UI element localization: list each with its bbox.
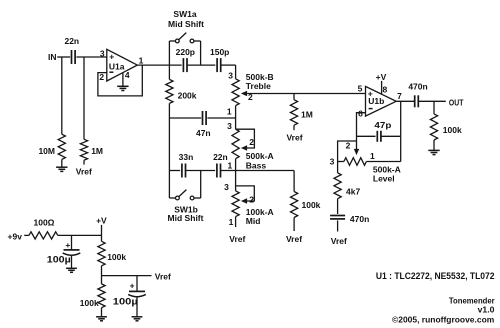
- svg-text:2: 2: [249, 137, 254, 147]
- svg-text:+: +: [368, 88, 373, 98]
- capacitor C2 220p: [182, 58, 184, 72]
- svg-text:2: 2: [346, 141, 351, 151]
- svg-text:Vref: Vref: [76, 166, 92, 176]
- capacitor C4 47n: [202, 111, 204, 125]
- wire divider mid: [101, 266, 103, 276]
- svg-text:Vref: Vref: [286, 133, 302, 143]
- svg-text:200k: 200k: [178, 91, 197, 101]
- svg-text:4k7: 4k7: [346, 186, 360, 196]
- pin 2 mid wiper loop: [236, 186, 255, 201]
- resistor R7 100k output: [430, 114, 437, 140]
- svg-text:1: 1: [227, 107, 232, 117]
- svg-text:v1.0: v1.0: [478, 305, 495, 315]
- wire R4 to Vref: [293, 125, 295, 130]
- svg-text:1: 1: [139, 56, 144, 66]
- svg-text:1: 1: [227, 160, 232, 170]
- switch SW1a: [168, 41, 170, 65]
- wire pin6 stub: [357, 113, 366, 150]
- svg-text:33n: 33n: [179, 152, 194, 162]
- wire 47n left: [169, 117, 201, 119]
- svg-text:47n: 47n: [196, 128, 211, 138]
- svg-text:Level: Level: [373, 173, 395, 183]
- svg-text:Vref: Vref: [331, 236, 347, 246]
- resistor R1 10M: [58, 134, 65, 159]
- svg-text:1: 1: [370, 151, 375, 161]
- wire R1 to ground: [61, 159, 63, 167]
- ground below R10: [96, 316, 107, 318]
- svg-text:SW1a: SW1a: [173, 9, 196, 19]
- wire U1a feedback pin2 to output: [98, 65, 142, 96]
- svg-text:3: 3: [227, 121, 232, 131]
- svg-text:8: 8: [383, 85, 388, 95]
- svg-text:500k-A: 500k-A: [246, 151, 274, 161]
- svg-text:100µ: 100µ: [113, 296, 138, 306]
- capacitor C1 22n input: [71, 50, 73, 64]
- svg-text:100k: 100k: [302, 200, 321, 210]
- capacitor C10 100u filter: [71, 235, 73, 249]
- resistor R2 1M: [80, 139, 87, 160]
- svg-text:Treble: Treble: [246, 81, 271, 91]
- svg-text:OUT: OUT: [449, 97, 464, 107]
- svg-text:47p: 47p: [374, 120, 391, 130]
- wire U1a out: [137, 64, 181, 66]
- wire lower left: [169, 170, 180, 172]
- svg-text:+: +: [130, 281, 135, 291]
- wire node to R1: [61, 57, 63, 134]
- svg-text:220p: 220p: [176, 47, 195, 57]
- svg-text:Vref: Vref: [155, 271, 171, 281]
- svg-text:Bass: Bass: [246, 160, 267, 170]
- svg-text:7: 7: [397, 91, 402, 101]
- wire C9 to OUT: [419, 100, 446, 102]
- potentiometer VR4 500k-A Level: [338, 161, 344, 163]
- svg-text:+9v: +9v: [8, 231, 23, 241]
- svg-text:470n: 470n: [408, 81, 427, 91]
- wire C1 to U1a pin3: [76, 56, 106, 58]
- svg-text:10M: 10M: [38, 146, 55, 156]
- capacitor C6 22n: [216, 164, 218, 178]
- capacitor C9 470n output: [414, 95, 416, 107]
- capacitor C11 100u vref: [136, 276, 138, 291]
- svg-text:100k: 100k: [107, 252, 126, 262]
- svg-text:+: +: [65, 240, 70, 250]
- resistor R9 100k divider upper: [101, 235, 103, 241]
- wire C11 to ground: [136, 297, 138, 316]
- ground below C10: [66, 267, 77, 269]
- potentiometer VR1 500k-B Treble: [232, 79, 239, 106]
- svg-text:+V: +V: [376, 72, 387, 82]
- wire R5 to Vref: [293, 218, 295, 232]
- wire bass bottom to mid top: [235, 159, 237, 191]
- svg-text:150p: 150p: [210, 47, 229, 57]
- wire C6 right: [221, 170, 295, 172]
- wire R10 to ground: [101, 308, 103, 317]
- svg-text:100k: 100k: [443, 125, 462, 135]
- capacitor C5 33n: [181, 164, 183, 178]
- capacitor C3 150p: [216, 58, 218, 72]
- resistor R3 200k: [168, 65, 170, 79]
- wire C10 to ground: [71, 256, 73, 268]
- svg-text:470n: 470n: [350, 214, 369, 224]
- svg-text:Mid Shift: Mid Shift: [168, 213, 204, 223]
- svg-text:©2005, runoffgroove.com: ©2005, runoffgroove.com: [392, 315, 495, 325]
- svg-text:IN: IN: [48, 52, 57, 62]
- svg-text:100Ω: 100Ω: [34, 218, 55, 228]
- svg-text:5: 5: [358, 84, 363, 94]
- op-amp U1b: [366, 86, 397, 116]
- svg-text:Vref: Vref: [229, 234, 245, 244]
- wire 47n right: [207, 117, 235, 119]
- wire wiper to pot3 loop: [338, 141, 357, 162]
- wire +V to pin8: [381, 81, 383, 94]
- capacitor C7 47p: [357, 135, 376, 137]
- pin 2 level wiper: [354, 149, 359, 155]
- svg-text:+V: +V: [96, 216, 107, 226]
- wire C5 to C6: [186, 170, 216, 172]
- wire C3 to treble pot: [221, 64, 236, 66]
- svg-text:Mid: Mid: [246, 216, 261, 226]
- wire to R4: [293, 94, 295, 100]
- svg-text:22n: 22n: [64, 36, 79, 46]
- ground below R7: [428, 149, 439, 151]
- ground below U1a: [117, 85, 128, 87]
- svg-text:Vref: Vref: [286, 234, 302, 244]
- wire C2 to C3: [187, 64, 215, 66]
- svg-text:22n: 22n: [213, 152, 228, 162]
- svg-text:100k: 100k: [80, 298, 99, 308]
- capacitor C8 470n: [330, 215, 345, 217]
- svg-text:3: 3: [228, 71, 233, 81]
- wire output down to level: [400, 101, 402, 161]
- svg-text:3: 3: [330, 157, 335, 167]
- wire treble bottom: [235, 106, 237, 130]
- svg-text:U1a: U1a: [109, 62, 125, 72]
- op-amp U1a: [107, 49, 138, 81]
- ground below C11: [132, 316, 143, 318]
- svg-text:2: 2: [99, 72, 104, 82]
- svg-text:1M: 1M: [91, 146, 103, 156]
- wire node to R2: [83, 57, 85, 139]
- wire R8 to +V node: [58, 234, 102, 236]
- svg-text:3: 3: [224, 182, 229, 192]
- svg-text:2: 2: [249, 194, 254, 204]
- resistor R6 4k7: [337, 162, 339, 173]
- svg-text:U1 : TLC2272, NE5532, TL072: U1 : TLC2272, NE5532, TL072: [376, 271, 495, 282]
- svg-text:100µ: 100µ: [47, 254, 71, 264]
- wire U1b out: [396, 100, 414, 102]
- resistor R4 1M: [290, 100, 297, 126]
- potentiometer VR2 500k-A Bass: [232, 129, 239, 159]
- wire R2 to Vref: [83, 160, 85, 164]
- pin 2 bass wiper loop: [236, 129, 255, 148]
- ground stem U1a pin4: [122, 73, 124, 86]
- wire C8 to Vref: [337, 220, 339, 231]
- resistor R10 100k divider lower: [101, 276, 103, 284]
- svg-text:1M: 1M: [301, 110, 313, 120]
- svg-text:4: 4: [125, 70, 130, 80]
- ground below R1: [56, 166, 67, 168]
- potentiometer VR3 100k-A Mid: [232, 191, 239, 217]
- wire +9v to R8: [24, 234, 29, 236]
- svg-text:3: 3: [100, 49, 105, 59]
- wire to R5: [293, 171, 295, 192]
- resistor R8 100ohm: [29, 232, 58, 239]
- svg-text:+: +: [109, 51, 114, 61]
- wire junction to R7: [433, 101, 435, 114]
- pin 2 treble wiper: [241, 91, 247, 96]
- wire IN to C1: [57, 56, 70, 58]
- wire 200k down: [168, 103, 170, 170]
- wire R7 to ground: [433, 140, 435, 150]
- wire treble wiper to U1b pin5: [247, 93, 365, 95]
- resistor R5 100k: [291, 192, 298, 218]
- svg-text:1: 1: [229, 217, 234, 227]
- svg-text:Mid Shift: Mid Shift: [168, 19, 204, 29]
- wire 4k7 to C8: [337, 199, 339, 214]
- wire mid bottom: [235, 217, 237, 227]
- switch SW1b: [168, 171, 170, 199]
